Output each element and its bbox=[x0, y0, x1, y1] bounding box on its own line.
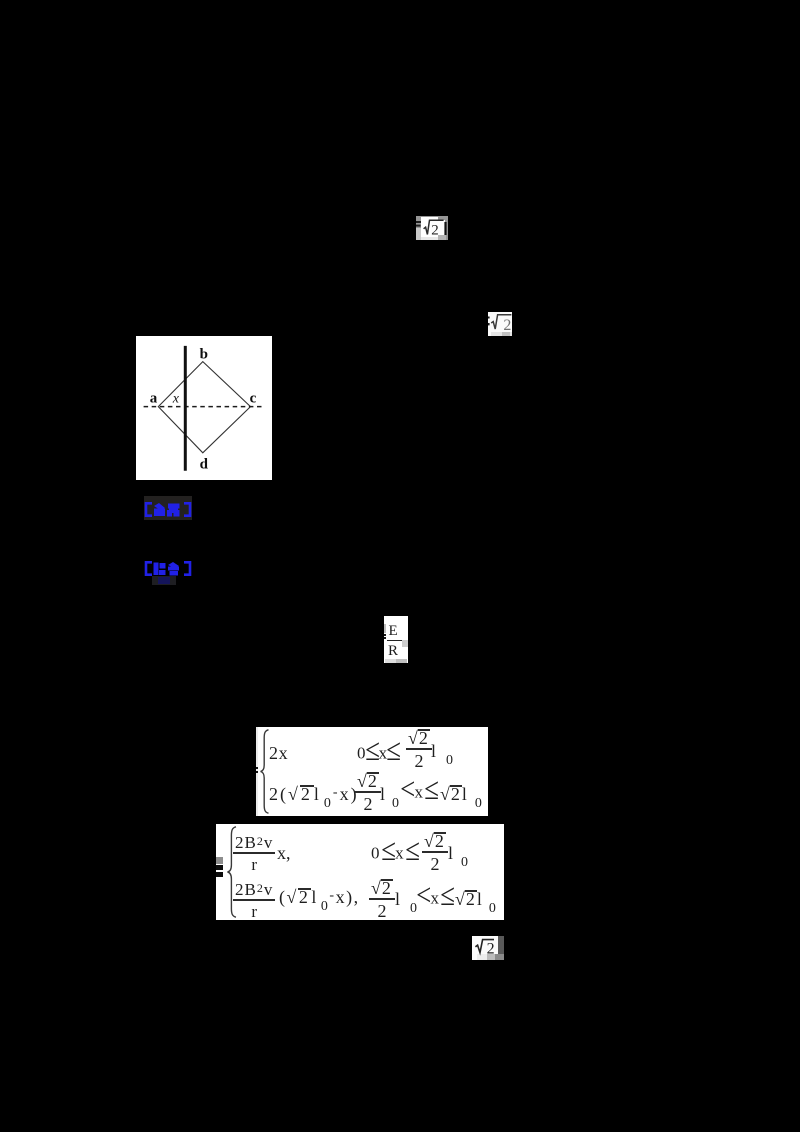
svg-text:b: b bbox=[200, 347, 208, 363]
row 1 bbox=[269, 744, 288, 762]
eq image: sqrt2 thumbnail 1 bbox=[416, 216, 448, 240]
row 2 bbox=[233, 881, 275, 920]
blue link text 2 bbox=[144, 561, 192, 576]
eq image: piecewise block 2 bbox=[216, 824, 504, 920]
svg-text:2: 2 bbox=[487, 940, 495, 957]
diamond bbox=[158, 362, 250, 453]
eq image: sqrt2 thumbnail 3 bbox=[472, 936, 504, 960]
eq image: E/R fraction bbox=[384, 616, 408, 663]
svg-text:2: 2 bbox=[431, 223, 439, 239]
figure: rhombus abcd with wire bbox=[136, 336, 272, 480]
link2 wrap fragment bbox=[152, 576, 176, 585]
dashed diagonal ac bbox=[144, 406, 262, 408]
eq image: sqrt2 thumbnail 2 bbox=[488, 312, 512, 336]
svg-text:c: c bbox=[250, 390, 257, 406]
row 1 bbox=[233, 834, 275, 873]
thick vertical wire bbox=[184, 346, 187, 471]
svg-text:x: x bbox=[172, 392, 180, 407]
blue link text 1 bbox=[144, 502, 192, 517]
row 2 bbox=[269, 785, 359, 804]
svg-text:2: 2 bbox=[503, 317, 511, 334]
eq image: piecewise block 1 bbox=[256, 727, 488, 816]
left curly brace bbox=[225, 826, 241, 918]
left curly brace bbox=[259, 729, 273, 814]
svg-text:a: a bbox=[150, 390, 158, 406]
svg-text:d: d bbox=[200, 457, 209, 473]
link highlight 1 bbox=[144, 496, 192, 520]
